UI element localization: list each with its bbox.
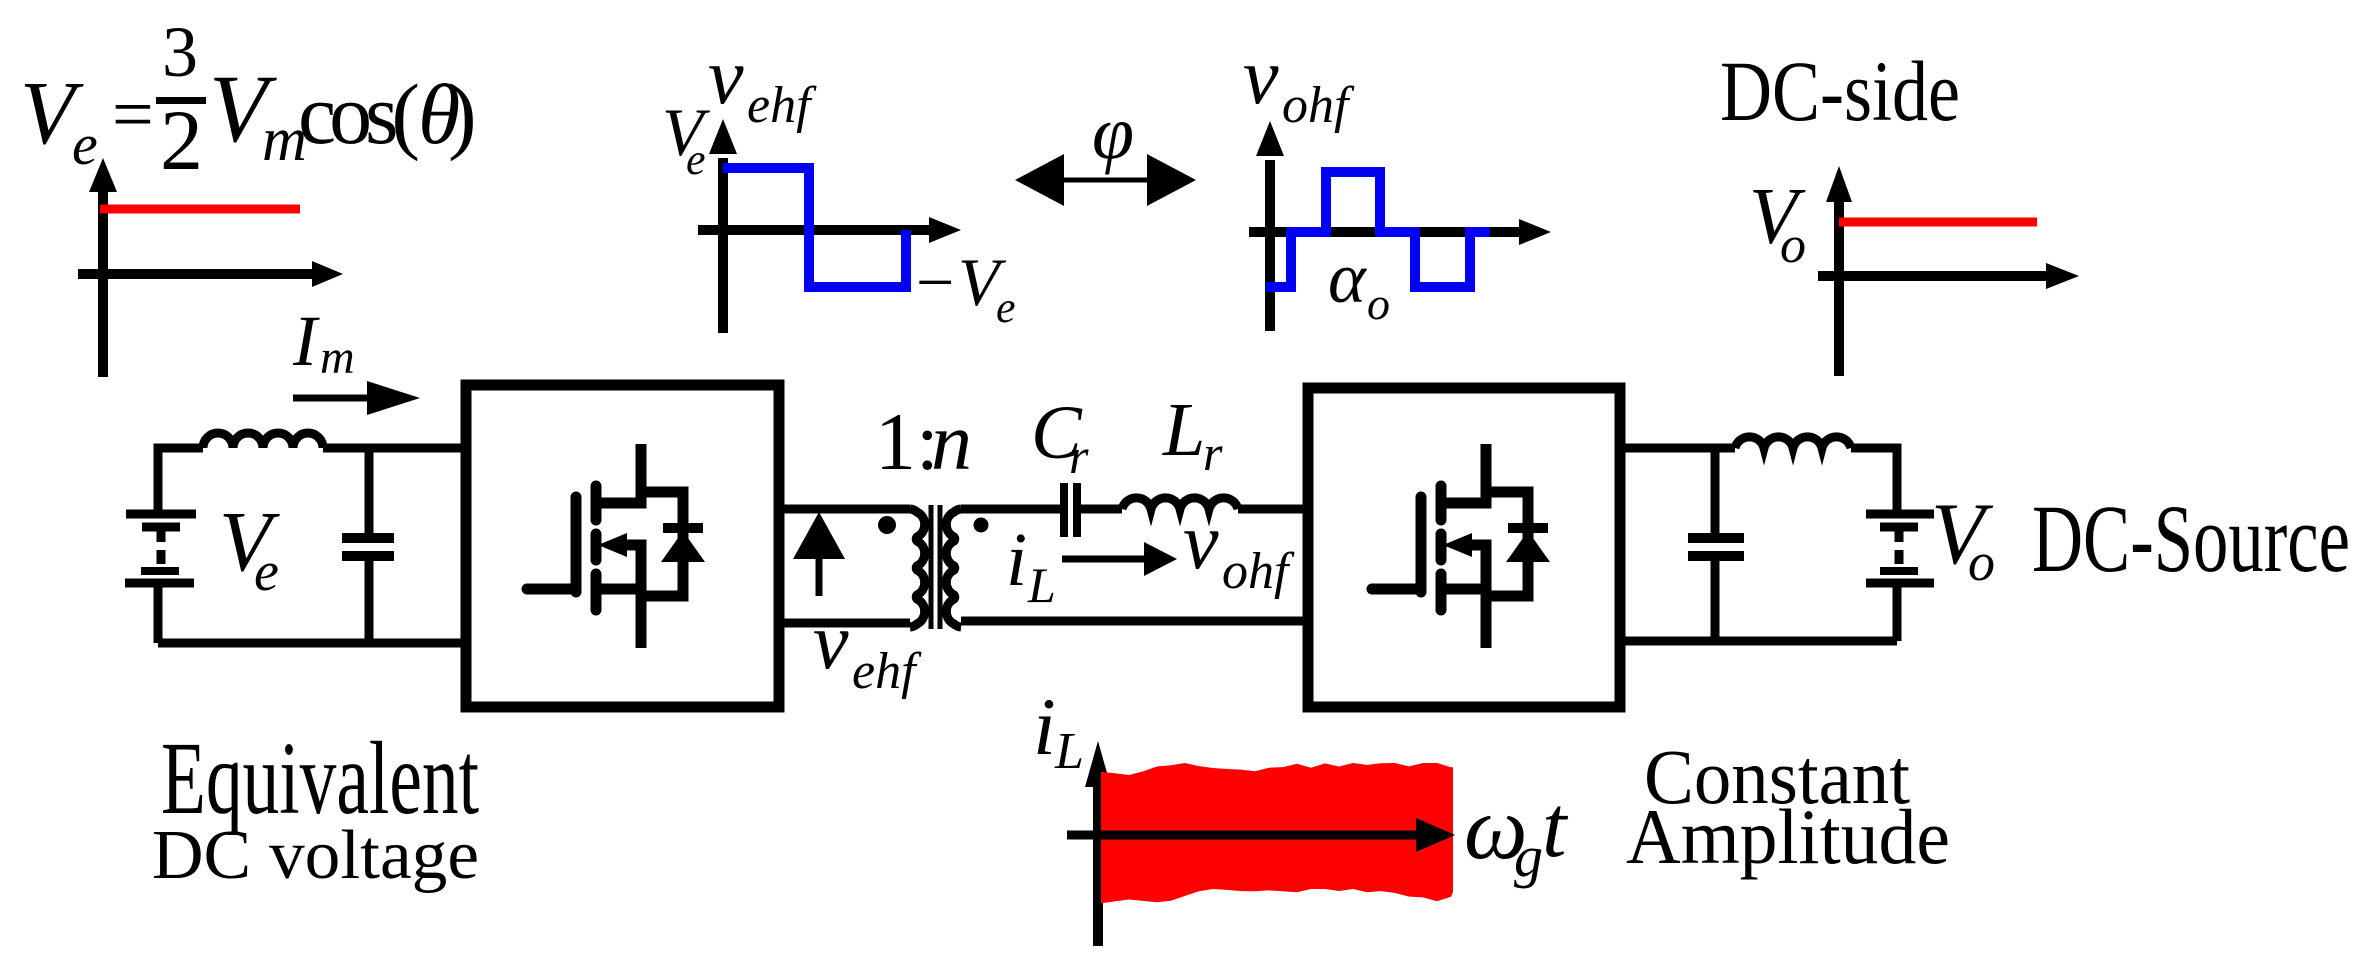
wire secondary bottom to box2 bbox=[961, 617, 1308, 626]
vohf horizontal axis bbox=[1249, 227, 1522, 237]
svg-text:m: m bbox=[320, 331, 355, 384]
vehf blue square wave bbox=[723, 168, 906, 287]
svg-text:i: i bbox=[1033, 681, 1056, 772]
svg-text:v: v bbox=[813, 598, 849, 686]
svg-text:o: o bbox=[1968, 532, 1995, 592]
wire box1 to transformer top bbox=[779, 505, 910, 514]
svg-text:e: e bbox=[254, 541, 279, 603]
svg-text:ohf: ohf bbox=[1222, 543, 1295, 600]
svg-text:g: g bbox=[1514, 824, 1543, 889]
svg-text:=: = bbox=[112, 74, 154, 156]
svg-text:2: 2 bbox=[160, 92, 203, 188]
DC-side red constant line bbox=[1839, 218, 2037, 227]
battery Ve top lead bbox=[158, 448, 203, 510]
wire Lr to box2 bbox=[1238, 505, 1308, 514]
iL arrow bbox=[1062, 556, 1148, 563]
svg-text:cos(: cos( bbox=[298, 66, 420, 162]
vehf voltage arrow bbox=[816, 556, 823, 596]
svg-text:): ) bbox=[448, 66, 477, 162]
output inductor bbox=[1735, 437, 1851, 448]
svg-text:Amplitude: Amplitude bbox=[1626, 793, 1950, 880]
wire bottom output loop bbox=[1620, 637, 1897, 646]
battery Ve plates bbox=[126, 510, 196, 519]
iL graph vertical axis bbox=[1093, 783, 1103, 946]
svg-text:e: e bbox=[996, 283, 1016, 332]
DC-side horizontal axis bbox=[1818, 271, 2048, 281]
vohf blue stepped wave bbox=[1266, 172, 1490, 287]
input inductor bbox=[203, 433, 323, 448]
svg-text:−: − bbox=[916, 244, 954, 320]
svg-text:v: v bbox=[1183, 498, 1219, 586]
Ve graph vertical axis bbox=[98, 186, 108, 377]
svg-text:DC voltage: DC voltage bbox=[152, 817, 479, 894]
capacitor Cr bbox=[1060, 483, 1068, 537]
svg-text:i: i bbox=[1006, 518, 1027, 602]
transformer primary winding bbox=[910, 509, 925, 627]
svg-text:L: L bbox=[1027, 557, 1056, 613]
iL graph horizontal axis bbox=[1067, 831, 1420, 840]
svg-text:n: n bbox=[931, 396, 972, 487]
fraction bar bbox=[156, 97, 206, 104]
iL red noise band bbox=[1101, 763, 1453, 903]
svg-text:DC-Source: DC-Source bbox=[2032, 485, 2350, 592]
svg-text:1:: 1: bbox=[875, 396, 939, 487]
svg-text:o: o bbox=[1780, 217, 1806, 274]
svg-text:e: e bbox=[686, 135, 706, 184]
wire to battery Vo bbox=[1851, 448, 1897, 510]
svg-text:r: r bbox=[1203, 425, 1223, 481]
svg-text:I: I bbox=[292, 301, 320, 381]
secondary dot bbox=[974, 518, 989, 533]
battery Vo bottom lead bbox=[1893, 586, 1902, 641]
wire top to box1 bbox=[323, 444, 466, 453]
svg-text:3: 3 bbox=[162, 12, 198, 92]
svg-text:ohf: ohf bbox=[1282, 77, 1355, 134]
inductor Lr bbox=[1122, 498, 1238, 509]
Ve graph horizontal axis bbox=[78, 269, 316, 279]
battery Ve bottom lead bbox=[154, 586, 163, 643]
output capacitor bbox=[1711, 448, 1720, 534]
input capacitor bbox=[365, 448, 374, 534]
double headed arrow bbox=[1045, 178, 1165, 183]
Ve graph red constant line bbox=[100, 205, 300, 214]
DC-side vertical axis bbox=[1834, 200, 1844, 376]
vehf horizontal axis bbox=[698, 225, 932, 235]
wire secondary to Cr bbox=[961, 505, 1061, 514]
svg-text:α: α bbox=[1328, 238, 1367, 318]
Im arrow bbox=[293, 395, 370, 402]
MOSFET U1 bbox=[527, 444, 705, 648]
primary dot bbox=[878, 516, 896, 534]
svg-text:t: t bbox=[1542, 779, 1569, 876]
wire bottom left loop bbox=[158, 639, 466, 648]
wire box1 to transformer bottom bbox=[779, 619, 910, 628]
MOSFET U2 bbox=[1372, 444, 1550, 648]
svg-text:DC-side: DC-side bbox=[1720, 43, 1960, 139]
svg-text:L: L bbox=[1162, 388, 1205, 472]
svg-text:L: L bbox=[1054, 723, 1084, 780]
vehf vertical axis bbox=[718, 158, 728, 333]
svg-text:φ: φ bbox=[1092, 91, 1134, 175]
transformer core bbox=[929, 505, 934, 629]
transformer secondary winding bbox=[946, 509, 961, 627]
svg-text:e: e bbox=[72, 112, 98, 177]
svg-text:ehf: ehf bbox=[747, 77, 817, 134]
svg-text:r: r bbox=[1069, 428, 1089, 484]
svg-text:v: v bbox=[708, 33, 744, 121]
battery Vo plates bbox=[1866, 510, 1934, 519]
svg-text:v: v bbox=[1243, 33, 1279, 121]
wire Cr to Lr bbox=[1080, 505, 1122, 514]
wire box2 to output top bbox=[1620, 444, 1735, 453]
svg-text:o: o bbox=[1367, 278, 1390, 329]
vohf vertical axis bbox=[1265, 160, 1275, 331]
svg-text:ehf: ehf bbox=[852, 643, 922, 700]
